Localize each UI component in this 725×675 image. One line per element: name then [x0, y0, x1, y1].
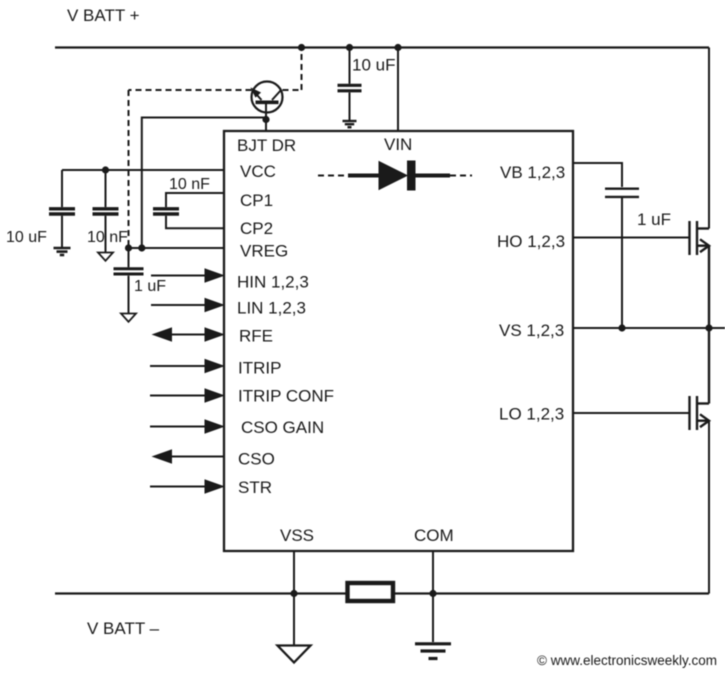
capacitor C1 10 uF (left): [49, 170, 75, 247]
pin arrow ITRIP CONF: [150, 389, 224, 402]
capacitor C3 10 nF (CP1-CP2): [153, 209, 179, 214]
svg-text:BJT DR: BJT DR: [237, 136, 296, 155]
ground: open triangle ground below C4: [121, 314, 136, 322]
ground: open triangle ground below VSS: [278, 646, 311, 663]
wire: VIN wire from rail: [397, 48, 399, 132]
wire: bottom rail right rise to low-side MOSFET source: [708, 421, 710, 594]
wire: dashed collector wire to top rail: [283, 48, 302, 91]
svg-text:V BATT +: V BATT +: [67, 6, 140, 25]
node: COM rail junction: [429, 590, 436, 597]
svg-text:LIN 1,2,3: LIN 1,2,3: [237, 299, 306, 318]
wire: VS wire: [573, 327, 725, 329]
wire: V BATT + top rail: [55, 46, 709, 48]
node: base junction: [262, 116, 269, 123]
svg-text:VB 1,2,3: VB 1,2,3: [500, 163, 565, 182]
svg-text:HIN 1,2,3: HIN 1,2,3: [237, 273, 309, 292]
svg-text:CP2: CP2: [240, 219, 273, 238]
wire: VB wire to bootstrap cap: [573, 163, 622, 187]
value label 1 uF: [637, 210, 671, 229]
pin arrow CSO GAIN: [150, 420, 224, 433]
node: VREG dashed junction: [125, 244, 132, 251]
svg-text:10 nF: 10 nF: [87, 229, 128, 246]
svg-text:STR: STR: [238, 478, 272, 497]
node: VSS rail junction: [290, 590, 297, 597]
pin arrow LIN: [151, 299, 224, 312]
svg-text:COM: COM: [414, 526, 454, 545]
svg-text:RFE: RFE: [239, 327, 273, 346]
wire: top rail right drop to high-side MOSFET drain: [708, 48, 710, 229]
svg-text:VSS: VSS: [280, 526, 314, 545]
svg-text:VCC: VCC: [240, 162, 276, 181]
wire: LO wire to low-side gate: [573, 412, 690, 414]
wire: VSS stem: [293, 551, 295, 645]
IC pin labels (right column): [497, 163, 565, 424]
svg-text:V BATT –: V BATT –: [87, 619, 160, 638]
svg-text:CP1: CP1: [240, 191, 273, 210]
wire: VCC wire: [62, 169, 224, 171]
value label 10 uF: [352, 56, 395, 75]
resistor R1 (VSS-COM shunt): [348, 583, 394, 601]
wire: VREG wire: [129, 247, 225, 249]
node: VS half-bridge junction: [705, 324, 712, 331]
node: top rail C5 junction: [346, 44, 353, 51]
ground: open triangle ground below C2: [98, 253, 113, 261]
svg-text:VIN: VIN: [384, 135, 412, 154]
ground: earth ground below C5: [343, 121, 357, 127]
capacitor C5 10 uF (top): [338, 48, 362, 121]
IC U1 body: [224, 131, 573, 551]
node: VREG base-wire junction: [138, 244, 145, 251]
value label 10 nF: [169, 176, 210, 193]
svg-text:ITRIP CONF: ITRIP CONF: [238, 387, 334, 406]
ground: earth ground below COM: [415, 644, 451, 659]
net label V BATT +: [67, 6, 140, 25]
wire: HO wire to high-side gate: [573, 237, 690, 239]
svg-text:CSO GAIN: CSO GAIN: [241, 418, 324, 437]
diode D1 (VIN, dashed leads): [318, 161, 472, 191]
wire: V BATT - bottom rail: [55, 592, 709, 594]
node: VCC / C2 junction: [102, 166, 109, 173]
wire: base network wire to VREG: [142, 118, 266, 249]
svg-text:LO 1,2,3: LO 1,2,3: [499, 405, 564, 424]
svg-text:VREG: VREG: [240, 242, 288, 261]
svg-text:10 uF: 10 uF: [352, 56, 395, 75]
transistor M2 low-side MOSFET: [690, 328, 710, 430]
wire: CP1 loop wire: [166, 193, 224, 207]
svg-text:10 uF: 10 uF: [6, 229, 47, 246]
watermark: [537, 653, 717, 668]
wire: CP2 loop wire: [166, 216, 224, 229]
capacitor C6 1 uF (bootstrap): [605, 189, 639, 328]
node: top rail VIN junction: [394, 44, 401, 51]
svg-text:1 uF: 1 uF: [637, 210, 671, 229]
pin arrow STR: [150, 480, 224, 493]
capacitor C4 1 uF (VREG): [114, 248, 144, 313]
ground: earth ground below C1: [54, 248, 71, 255]
value label 1 uF: [134, 278, 166, 295]
transistor Q1 (BJT): [252, 82, 283, 113]
pin arrow HIN: [151, 269, 224, 282]
wire: dashed emitter wire to VREG node: [129, 90, 252, 248]
pin arrow CSO (output): [153, 450, 224, 463]
wire: COM stem: [432, 551, 434, 642]
capacitor C2 10 nF (second from left): [93, 170, 119, 252]
pin arrow ITRIP: [150, 360, 224, 373]
svg-text:CSO: CSO: [238, 450, 275, 469]
svg-text:VS 1,2,3: VS 1,2,3: [499, 321, 564, 340]
svg-text:1 uF: 1 uF: [134, 278, 166, 295]
svg-text:ITRIP: ITRIP: [238, 359, 281, 378]
node: top rail dashed junction: [298, 44, 305, 51]
svg-text:10 nF: 10 nF: [169, 176, 210, 193]
node: VS bootstrap junction: [618, 324, 625, 331]
value label 10 uF: [6, 229, 47, 246]
value label 10 nF: [87, 229, 128, 246]
svg-text:© www.electronicsweekly.com: © www.electronicsweekly.com: [537, 653, 717, 668]
IC pin labels (top/bottom): [280, 135, 454, 545]
transistor M1 high-side MOSFET: [690, 221, 710, 328]
wire: BJT base stem to BJT DR pin: [265, 102, 267, 131]
pin arrow RFE (bidirectional): [153, 328, 224, 341]
IC pin labels (left column): [237, 136, 334, 497]
svg-text:HO 1,2,3: HO 1,2,3: [497, 232, 565, 251]
net label V BATT -: [87, 619, 160, 638]
